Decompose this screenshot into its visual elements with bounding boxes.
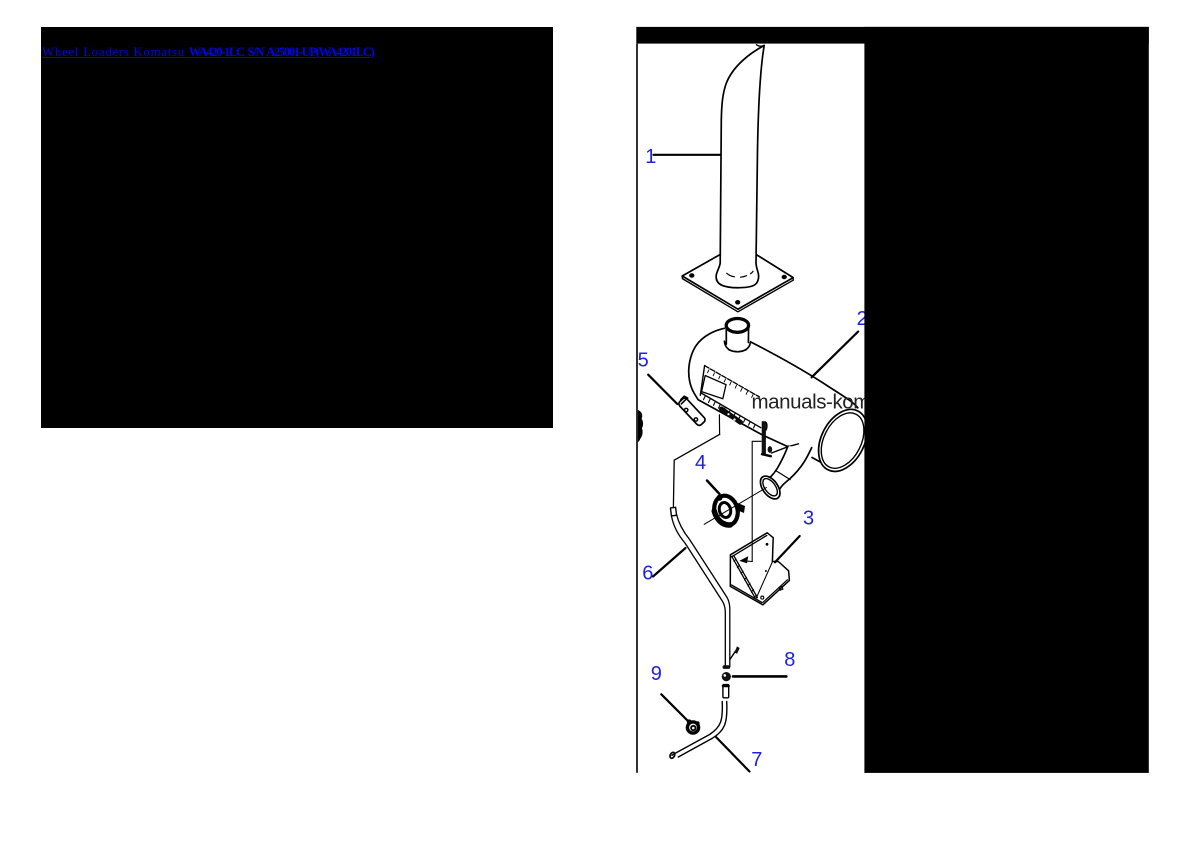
leader 4: [707, 481, 720, 495]
junction lines near elbow: [772, 444, 799, 453]
clamp 4: [711, 493, 745, 528]
long leader line down to bracket: [742, 441, 761, 561]
leader 8: [733, 675, 786, 678]
pin on muffler bottom: [762, 421, 773, 456]
plate 5: [678, 396, 707, 426]
muffler top edge: [750, 341, 858, 407]
breadcrumb link: [42, 44, 374, 60]
leader 1: [654, 154, 721, 156]
clip on tube: [730, 651, 736, 659]
saddle band on muffler: [700, 366, 761, 428]
top black bar: [636, 27, 1149, 44]
svg-text:3: 3: [803, 508, 814, 530]
svg-text:9: 9: [651, 663, 662, 685]
leader 2: [812, 332, 859, 378]
muffler body 2: [689, 328, 865, 470]
flange plate of exhaust pipe: [682, 244, 793, 312]
drain line from band to tube 6: [718, 415, 720, 434]
svg-text:6: 6: [642, 562, 653, 584]
muffler end cap ellipses: [809, 401, 877, 479]
tube 7: [672, 702, 727, 758]
muffler outline edges: [689, 328, 788, 446]
leader 9: [661, 694, 688, 721]
leader 7: [716, 737, 750, 772]
svg-text:5: 5: [638, 350, 649, 372]
left border line of diagram: [636, 44, 638, 773]
dark band blotch: [722, 409, 741, 422]
svg-text:7: 7: [751, 749, 762, 771]
axis line through clamp 4: [704, 488, 766, 525]
svg-text:8: 8: [784, 649, 795, 671]
clamp 9: [687, 719, 700, 733]
leader 3: [775, 536, 800, 562]
bracket 3: [730, 533, 789, 605]
diagram svg: [636, 26, 1150, 774]
exhaust stack pipe 1: [716, 45, 764, 288]
nipple below nut: [723, 685, 729, 698]
cut-off blob at left border: [638, 410, 643, 442]
leader 6: [653, 548, 686, 577]
left black panel: [41, 27, 553, 428]
leader 5: [648, 375, 677, 404]
right black box: [864, 27, 1148, 773]
elbow outlet: [756, 446, 811, 502]
svg-text:4: 4: [695, 452, 706, 474]
nut 8: [722, 672, 731, 681]
inlet pipe on muffler: [724, 319, 750, 352]
svg-text:1: 1: [645, 146, 656, 168]
tube 6: [670, 434, 729, 666]
